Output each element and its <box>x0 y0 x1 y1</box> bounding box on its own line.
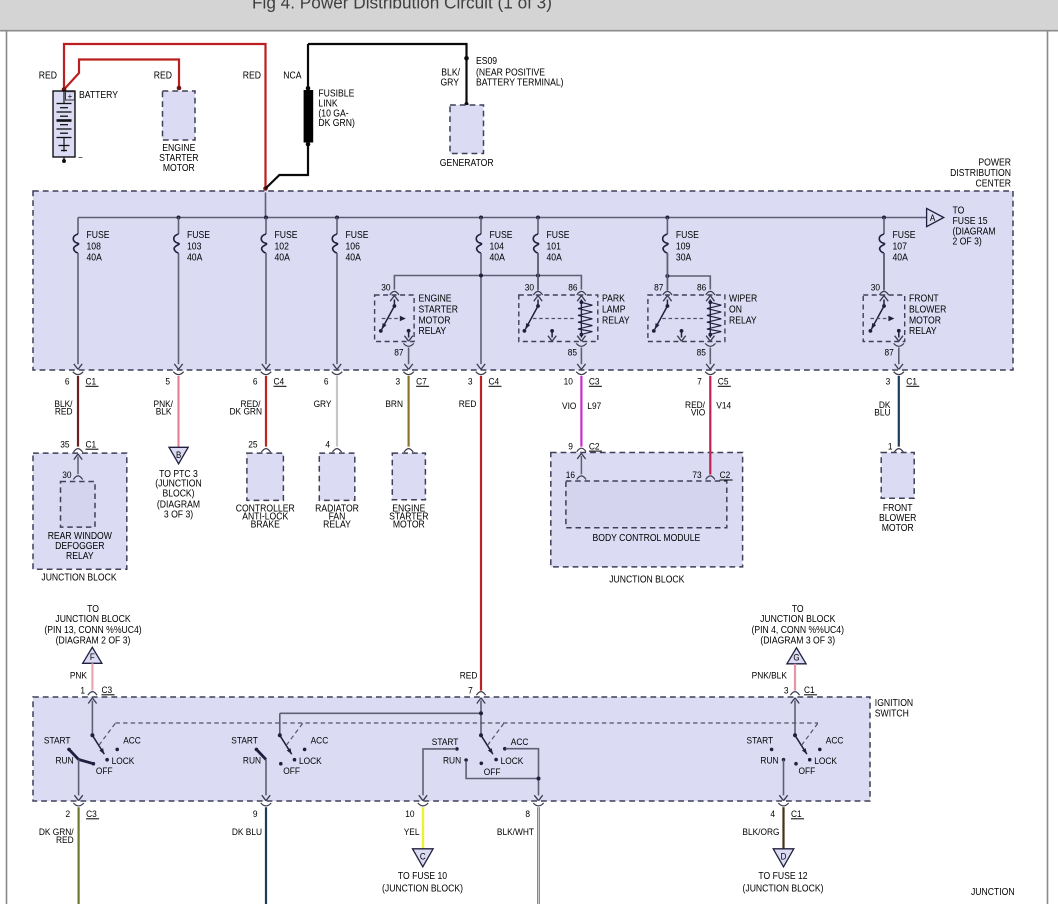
svg-text:BLK/WHT: BLK/WHT <box>497 827 535 838</box>
svg-text:+: + <box>68 91 73 101</box>
svg-text:BLK: BLK <box>156 406 172 417</box>
svg-text:RELAY: RELAY <box>419 326 447 337</box>
svg-text:C2: C2 <box>589 441 600 452</box>
svg-text:(DIAGRAM 2 OF 3): (DIAGRAM 2 OF 3) <box>56 635 131 646</box>
svg-text:(PIN 4, CONN %%UC4): (PIN 4, CONN %%UC4) <box>751 625 843 636</box>
svg-text:MOTOR: MOTOR <box>419 315 451 326</box>
svg-text:3: 3 <box>468 376 473 387</box>
svg-text:MOTOR: MOTOR <box>909 315 941 326</box>
svg-text:86: 86 <box>568 282 577 293</box>
svg-text:C1: C1 <box>86 376 97 387</box>
svg-text:40A: 40A <box>187 252 203 263</box>
svg-text:TO FUSE 12: TO FUSE 12 <box>758 870 807 881</box>
svg-text:2 OF 3): 2 OF 3) <box>953 236 982 247</box>
svg-text:40A: 40A <box>490 252 506 263</box>
svg-text:ACC: ACC <box>311 735 329 746</box>
svg-text:FUSE: FUSE <box>676 230 699 241</box>
svg-text:LOCK: LOCK <box>501 756 524 767</box>
svg-text:FUSE: FUSE <box>490 230 513 241</box>
svg-text:C5: C5 <box>718 376 729 387</box>
svg-text:9: 9 <box>253 809 258 820</box>
svg-text:RELAY: RELAY <box>602 315 630 326</box>
svg-text:GRY: GRY <box>440 77 459 88</box>
svg-text:73: 73 <box>692 470 701 481</box>
svg-text:C1: C1 <box>86 439 97 450</box>
svg-text:(JUNCTION BLOCK): (JUNCTION BLOCK) <box>743 883 824 894</box>
svg-text:JUNCTION BLOCK: JUNCTION BLOCK <box>41 572 117 583</box>
svg-text:6: 6 <box>324 376 329 387</box>
svg-text:BLU: BLU <box>874 407 890 418</box>
svg-text:4: 4 <box>325 439 330 450</box>
svg-text:−: − <box>78 152 83 163</box>
svg-text:START: START <box>747 735 774 746</box>
svg-text:BLK/ORG: BLK/ORG <box>742 827 779 838</box>
svg-text:C2: C2 <box>720 470 731 481</box>
svg-text:ON: ON <box>729 304 742 315</box>
svg-text:FUSE: FUSE <box>187 230 210 241</box>
svg-text:35: 35 <box>60 439 69 450</box>
svg-text:8: 8 <box>525 809 530 820</box>
svg-text:FUSE: FUSE <box>275 230 298 241</box>
svg-text:OFF: OFF <box>484 767 501 778</box>
svg-text:RUN: RUN <box>243 755 261 766</box>
svg-text:GENERATOR: GENERATOR <box>440 157 494 168</box>
svg-text:START: START <box>432 737 459 748</box>
svg-text:A: A <box>930 213 936 224</box>
svg-text:RELAY: RELAY <box>66 551 94 562</box>
svg-text:85: 85 <box>697 347 706 358</box>
svg-text:40A: 40A <box>87 252 103 263</box>
svg-text:F: F <box>90 651 95 662</box>
svg-text:LOCK: LOCK <box>112 756 135 767</box>
svg-text:GRY: GRY <box>314 399 332 410</box>
svg-text:BODY CONTROL MODULE: BODY CONTROL MODULE <box>592 533 700 544</box>
svg-text:9: 9 <box>568 441 573 452</box>
svg-text:10: 10 <box>564 376 573 387</box>
svg-text:OFF: OFF <box>283 766 300 777</box>
svg-text:C7: C7 <box>416 376 427 387</box>
svg-text:PNK/BLK: PNK/BLK <box>752 670 787 681</box>
svg-text:RED: RED <box>56 835 74 846</box>
svg-text:FUSE 15: FUSE 15 <box>953 215 988 226</box>
svg-text:START: START <box>44 735 71 746</box>
svg-text:Fig 4. Power Distribution Circ: Fig 4. Power Distribution Circuit (1 of … <box>252 0 552 13</box>
svg-text:L97: L97 <box>587 400 601 411</box>
svg-text:7: 7 <box>468 685 473 696</box>
svg-text:C3: C3 <box>589 376 600 387</box>
svg-text:86: 86 <box>697 282 706 293</box>
svg-text:1: 1 <box>888 441 893 452</box>
svg-text:C4: C4 <box>274 376 285 387</box>
svg-text:C3: C3 <box>102 685 113 696</box>
svg-text:1: 1 <box>80 685 85 696</box>
svg-text:C1: C1 <box>804 685 815 696</box>
svg-text:(NEAR POSITIVE: (NEAR POSITIVE <box>476 67 545 78</box>
svg-text:CENTER: CENTER <box>976 178 1012 189</box>
svg-text:MOTOR: MOTOR <box>163 162 195 173</box>
svg-text:C4: C4 <box>489 376 500 387</box>
svg-text:RELAY: RELAY <box>729 315 757 326</box>
svg-text:107: 107 <box>893 241 907 252</box>
svg-text:6: 6 <box>65 376 70 387</box>
svg-text:C: C <box>420 851 426 862</box>
svg-text:STARTER: STARTER <box>419 304 459 315</box>
svg-text:16: 16 <box>566 470 575 481</box>
svg-text:IGNITION: IGNITION <box>875 697 913 708</box>
svg-text:FUSE: FUSE <box>893 230 916 241</box>
svg-text:RED: RED <box>243 70 262 81</box>
svg-text:BLK/: BLK/ <box>441 67 460 78</box>
svg-text:3 OF 3): 3 OF 3) <box>164 509 193 520</box>
svg-text:5: 5 <box>165 376 170 387</box>
svg-text:106: 106 <box>346 241 360 252</box>
svg-text:DK GRN: DK GRN <box>230 406 262 417</box>
svg-text:FUSE: FUSE <box>346 230 369 241</box>
svg-text:LOCK: LOCK <box>299 756 322 767</box>
svg-text:101: 101 <box>547 241 561 252</box>
svg-text:YEL: YEL <box>404 827 420 838</box>
svg-text:MOTOR: MOTOR <box>393 519 425 530</box>
svg-text:RUN: RUN <box>56 755 74 766</box>
svg-text:V14: V14 <box>716 400 731 411</box>
svg-text:25: 25 <box>248 439 257 450</box>
svg-text:3: 3 <box>395 376 400 387</box>
svg-text:40A: 40A <box>275 252 291 263</box>
svg-text:85: 85 <box>568 347 577 358</box>
svg-text:108: 108 <box>87 241 101 252</box>
svg-text:40A: 40A <box>547 252 563 263</box>
svg-text:(DIAGRAM: (DIAGRAM <box>953 226 996 237</box>
svg-text:ACC: ACC <box>511 737 529 748</box>
svg-text:RUN: RUN <box>443 755 461 766</box>
svg-text:(PIN 13, CONN %%UC4): (PIN 13, CONN %%UC4) <box>44 625 141 636</box>
svg-text:BATTERY: BATTERY <box>79 90 118 101</box>
svg-text:(DIAGRAM 3 OF 3): (DIAGRAM 3 OF 3) <box>760 635 835 646</box>
svg-text:ACC: ACC <box>123 735 141 746</box>
svg-text:BRAKE: BRAKE <box>251 519 280 530</box>
svg-text:ENGINE: ENGINE <box>419 293 452 304</box>
svg-text:TO FUSE 10: TO FUSE 10 <box>398 870 447 881</box>
svg-text:40A: 40A <box>346 252 362 263</box>
svg-text:87: 87 <box>654 282 663 293</box>
svg-text:RELAY: RELAY <box>323 519 351 530</box>
svg-text:104: 104 <box>490 241 504 252</box>
svg-text:WIPER: WIPER <box>729 293 758 304</box>
svg-text:DISTRIBUTION: DISTRIBUTION <box>950 168 1011 179</box>
svg-text:87: 87 <box>394 347 403 358</box>
svg-text:RED: RED <box>460 670 478 681</box>
svg-text:LAMP: LAMP <box>602 304 625 315</box>
svg-text:RED: RED <box>154 70 173 81</box>
svg-text:ES09: ES09 <box>476 56 497 67</box>
svg-text:BRN: BRN <box>385 399 403 410</box>
svg-text:PARK: PARK <box>602 293 626 304</box>
svg-text:BATTERY TERMINAL): BATTERY TERMINAL) <box>476 77 564 88</box>
svg-text:TO: TO <box>953 205 965 216</box>
svg-text:JUNCTION BLOCK: JUNCTION BLOCK <box>760 613 836 624</box>
svg-text:30: 30 <box>871 282 880 293</box>
svg-text:FUSE: FUSE <box>547 230 570 241</box>
svg-text:30A: 30A <box>676 252 692 263</box>
svg-text:109: 109 <box>676 241 690 252</box>
svg-text:SWITCH: SWITCH <box>875 708 909 719</box>
svg-text:START: START <box>231 735 258 746</box>
svg-text:B: B <box>176 449 182 460</box>
svg-text:RED: RED <box>55 406 73 417</box>
svg-text:3: 3 <box>886 376 891 387</box>
svg-text:DK GRN): DK GRN) <box>318 118 354 129</box>
svg-text:BLOCK): BLOCK) <box>162 488 194 499</box>
svg-text:OFF: OFF <box>96 766 113 777</box>
svg-text:BLOWER: BLOWER <box>909 304 947 315</box>
svg-text:MOTOR: MOTOR <box>882 522 914 533</box>
svg-text:6: 6 <box>253 376 258 387</box>
svg-text:30: 30 <box>62 470 71 481</box>
svg-text:G: G <box>793 652 799 663</box>
svg-text:VIO: VIO <box>691 407 705 418</box>
svg-text:STARTER: STARTER <box>159 152 199 163</box>
svg-text:10: 10 <box>405 809 414 820</box>
svg-text:FUSE: FUSE <box>87 230 110 241</box>
svg-text:LOCK: LOCK <box>814 756 837 767</box>
svg-text:JUNCTION: JUNCTION <box>971 887 1015 898</box>
svg-text:C1: C1 <box>906 376 917 387</box>
svg-text:PNK: PNK <box>70 670 87 681</box>
svg-text:FRONT: FRONT <box>909 293 939 304</box>
svg-text:JUNCTION BLOCK: JUNCTION BLOCK <box>55 613 131 624</box>
svg-text:103: 103 <box>187 241 201 252</box>
svg-text:RED: RED <box>459 399 477 410</box>
svg-text:RUN: RUN <box>760 755 778 766</box>
svg-text:C1: C1 <box>791 809 802 820</box>
svg-text:30: 30 <box>525 282 534 293</box>
svg-text:7: 7 <box>697 376 702 387</box>
svg-text:NCA: NCA <box>283 70 302 81</box>
svg-text:2: 2 <box>65 809 70 820</box>
svg-text:102: 102 <box>275 241 289 252</box>
svg-text:OFF: OFF <box>799 766 816 777</box>
svg-text:(JUNCTION BLOCK): (JUNCTION BLOCK) <box>382 883 463 894</box>
svg-text:40A: 40A <box>893 252 909 263</box>
svg-text:D: D <box>781 851 787 862</box>
svg-text:4: 4 <box>770 809 775 820</box>
svg-text:RELAY: RELAY <box>909 326 937 337</box>
svg-text:POWER: POWER <box>978 157 1011 168</box>
svg-text:ACC: ACC <box>826 735 844 746</box>
svg-text:3: 3 <box>784 685 789 696</box>
svg-text:30: 30 <box>381 282 390 293</box>
svg-text:JUNCTION BLOCK: JUNCTION BLOCK <box>609 574 685 585</box>
svg-text:VIO: VIO <box>562 400 576 411</box>
svg-text:RED: RED <box>39 70 58 81</box>
svg-text:C3: C3 <box>86 809 97 820</box>
svg-text:87: 87 <box>885 347 894 358</box>
svg-text:DK BLU: DK BLU <box>232 827 262 838</box>
